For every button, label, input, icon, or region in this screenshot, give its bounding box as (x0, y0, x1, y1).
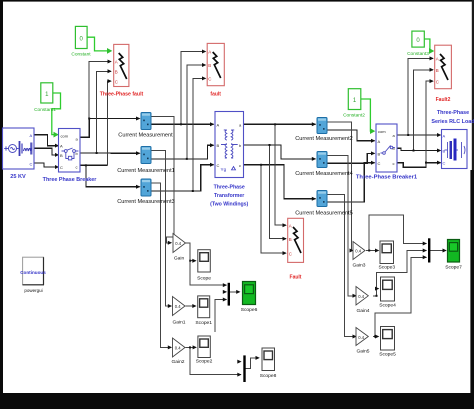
svg-text:Scope4: Scope4 (379, 303, 396, 309)
gain Gain3 (353, 242, 365, 260)
current measurement Current Measurement4 (317, 152, 327, 168)
svg-text:0.4: 0.4 (358, 294, 364, 299)
frame bottom border (0, 393, 474, 409)
wire Current Measurement4 out to Three-Phase Breaker1 B (327, 153, 375, 163)
scope Scope1 (198, 296, 210, 318)
wire mux Scope7 output to Scope7 (430, 250, 446, 252)
svg-text:Current Measurement1: Current Measurement1 (117, 168, 175, 174)
svg-text:C: C (208, 77, 211, 82)
svg-text:C: C (289, 251, 292, 256)
wire tap down to Fault B (270, 145, 287, 239)
wire source B to breaker B (34, 148, 59, 155)
current measurement Current Measurement5 (317, 191, 327, 207)
wire transformer b to Current Measurement4 (244, 145, 316, 159)
wire tap up to fault A (181, 52, 206, 125)
svg-text:Transformer: Transformer (214, 193, 244, 199)
current measurement Current Measurement1 (141, 147, 151, 164)
svg-text:0.4: 0.4 (355, 249, 361, 254)
gain Gain5 (356, 328, 368, 346)
constant Constant2 (348, 89, 361, 110)
wire Constant1 to breaker com (52, 93, 61, 135)
wire node tap to Three-Phase Fault A (89, 62, 111, 119)
svg-text:Three Phase Breaker: Three Phase Breaker (43, 177, 98, 183)
wire tap up to Fault2 A (408, 58, 433, 135)
svg-text:Constant: Constant (71, 52, 91, 58)
svg-text:A: A (60, 144, 63, 149)
svg-text:Yg: Yg (221, 167, 227, 172)
mux for Scope7 (428, 238, 430, 262)
svg-text:Current Measurement4: Current Measurement4 (295, 171, 353, 177)
svg-text:A: A (217, 122, 220, 127)
svg-text:Scope: Scope (197, 276, 211, 282)
frame left border (0, 0, 3, 409)
svg-text:com: com (378, 129, 386, 134)
wire tap up to Fault2 B (414, 70, 434, 151)
wire tap up to Three-Phase Fault C (107, 81, 111, 165)
svg-text:Constant1: Constant1 (34, 107, 56, 113)
wire source C to breaker C (34, 163, 59, 167)
wire tap down to Current Measurement3 input (86, 165, 140, 186)
svg-text:B: B (436, 68, 439, 73)
scope Scope4 (381, 277, 395, 301)
svg-text:Fault: Fault (290, 275, 302, 281)
wire Current Measurement1 i output down to Gain1 (151, 150, 171, 306)
svg-text:Scope2: Scope2 (196, 359, 213, 365)
svg-text:Current Measurement5: Current Measurement5 (295, 210, 353, 216)
breaker Three-Phase Breaker1 (376, 124, 397, 172)
svg-text:Constant3: Constant3 (407, 51, 429, 57)
wire mux Scope8 output to Scope8 (246, 358, 259, 369)
constant Constant3 (412, 31, 424, 47)
fault fault (top middle) (207, 43, 224, 85)
wire Gain branch down to mux Scope6 input1 (190, 261, 226, 285)
svg-text:Scope8: Scope8 (260, 373, 277, 379)
wire Gain4 branch to mux Scope7 input2 (377, 251, 427, 289)
transformer Three-Phase Transformer (215, 112, 244, 178)
scope Scope6 (green) (243, 282, 256, 305)
scope Scope5 (381, 327, 395, 351)
black arrowheads (55, 50, 447, 377)
breaker Three Phase Breaker (59, 129, 81, 173)
wire Current Measurement5 out to Three-Phase Breaker1 C (327, 163, 375, 202)
svg-text:Gain3: Gain3 (352, 263, 365, 269)
wire node tap to Three-Phase Fault B (97, 71, 111, 153)
wire breaker b to Current Measurement1 input (80, 152, 140, 154)
svg-text:C: C (217, 163, 220, 168)
wire tap up to fault C (193, 78, 206, 191)
svg-text:Gain1: Gain1 (172, 320, 185, 326)
powergui Continuous block (20, 257, 46, 285)
svg-text:(Two Windings): (Two Windings) (210, 202, 248, 208)
wire Gain2 output to Scope2 (186, 346, 196, 348)
svg-text:Three-Phase: Three-Phase (214, 185, 245, 191)
svg-text:Gain5: Gain5 (356, 349, 369, 355)
load Three-Phase Series RLC Load block (442, 130, 468, 169)
frame right border upper (472, 0, 474, 170)
wire breaker a to Current Measurement input (80, 119, 140, 138)
svg-text:C: C (443, 161, 446, 166)
wire transformer a to Current Measurement2 (244, 123, 316, 125)
wire bus B Current Measurement1 to Transformer B (151, 145, 214, 159)
svg-text:Continuous: Continuous (20, 270, 46, 275)
constant Constant1 (41, 83, 53, 103)
svg-text:25 KV: 25 KV (10, 174, 26, 180)
wire breaker1 c to RLC load C (397, 163, 441, 168)
wire breaker c horizontal (80, 164, 107, 166)
wire tap down to Fault A (275, 124, 286, 225)
svg-text:Three-Phase Breaker1: Three-Phase Breaker1 (356, 175, 418, 181)
svg-text:C: C (436, 79, 439, 84)
svg-text:B: B (30, 147, 33, 152)
svg-text:Scope6: Scope6 (241, 307, 258, 313)
gain Gain4 (356, 287, 368, 306)
svg-text:Current Measurement2: Current Measurement2 (295, 136, 353, 142)
fault Fault (bottom) (288, 218, 304, 262)
wire Gain3 output to Scope3 (366, 250, 379, 252)
wire Gain4 output jog to Scope4 (373, 289, 379, 296)
svg-text:c: c (76, 164, 78, 169)
wire breaker1 a to RLC load A (397, 134, 441, 136)
svg-text:Fault2: Fault2 (436, 97, 451, 103)
svg-text:Three-Phase fault: Three-Phase fault (100, 92, 144, 98)
source block 25 KV (3, 128, 35, 169)
constant wires (green) (52, 37, 432, 134)
svg-text:B: B (60, 153, 63, 158)
svg-text:0.4: 0.4 (358, 335, 364, 340)
wire mux Scope6 output to Scope6 (230, 291, 239, 293)
frame right border lower (470, 170, 474, 409)
frame top border (0, 0, 474, 2)
junction node dots (85, 118, 427, 349)
svg-text:B: B (443, 149, 446, 154)
svg-text:0.4: 0.4 (175, 304, 181, 309)
wire transformer c to Current Measurement5 (244, 165, 316, 199)
svg-text:Current Measurement3: Current Measurement3 (117, 199, 175, 205)
svg-text:A: A (436, 57, 439, 62)
wire tap down to Fault C (261, 165, 286, 253)
svg-text:Scope7: Scope7 (445, 264, 462, 270)
scope Scope2 (198, 336, 210, 358)
svg-text:A: A (115, 60, 118, 65)
green arrowheads (54, 48, 435, 138)
wire Current Measurement5 i output down to Gain5 (327, 195, 356, 337)
svg-text:C: C (378, 161, 381, 166)
svg-text:A: A (378, 139, 381, 144)
wire bus A Current Measurement to Transformer A (151, 123, 214, 125)
svg-text:0.4: 0.4 (175, 241, 181, 246)
svg-text:Current Measurement: Current Measurement (118, 133, 173, 139)
wire vertical feed mux Scope6 input3 (215, 300, 226, 333)
svg-text:B: B (378, 151, 381, 156)
svg-text:A: A (443, 133, 446, 138)
svg-text:Constant2: Constant2 (343, 113, 365, 119)
wire tap up to fault B (187, 65, 206, 159)
scope Scope3 (380, 241, 394, 264)
wire Gain2 branch down to mux Scope8 input2 (190, 347, 241, 374)
svg-text:Scope5: Scope5 (379, 352, 396, 358)
mux for Scope8 (243, 355, 245, 382)
svg-text:Gain: Gain (174, 256, 185, 262)
gain Gain2 (173, 338, 186, 357)
svg-text:A: A (289, 223, 292, 228)
wire bus C Current Measurement3 to Transformer C (151, 165, 214, 191)
wire Constant3 to Fault2 control (424, 39, 431, 51)
svg-text:Gain2: Gain2 (171, 359, 184, 365)
svg-text:Gain4: Gain4 (356, 308, 369, 314)
wire breaker1 b to RLC load B (397, 148, 441, 150)
wire Gain output to Scope (186, 243, 196, 261)
mux for Scope6 (228, 283, 230, 306)
wire Gain1 output to Scope1 (186, 305, 196, 307)
wire Gain5 output to Scope5 (373, 336, 379, 338)
scope Scope7 (green) (448, 240, 460, 263)
svg-text:fault: fault (210, 92, 221, 98)
current measurement Current Measurement3 (141, 179, 151, 196)
svg-text:com: com (61, 134, 69, 139)
svg-text:B: B (115, 70, 118, 75)
scope Scope8 (262, 348, 275, 371)
svg-text:Scope3: Scope3 (379, 264, 396, 270)
wire Current Measurement2 i output down to Gain3 (327, 122, 353, 251)
wire tap up to Fault2 C (426, 81, 433, 163)
svg-text:Three-Phase: Three-Phase (437, 110, 469, 116)
constant Constant (75, 26, 87, 48)
current measurement Current Measurement2 (317, 118, 327, 134)
svg-text:powergui: powergui (24, 288, 42, 293)
wire Current Measurement4 i output down to Gain4 (327, 156, 356, 296)
svg-text:0.4: 0.4 (175, 346, 181, 351)
svg-text:c: c (393, 161, 395, 166)
svg-text:Scope1: Scope1 (195, 320, 212, 326)
gain Gain1 (173, 297, 186, 316)
svg-text:Series RLC Load: Series RLC Load (431, 119, 474, 125)
svg-text:C: C (60, 165, 63, 170)
svg-text:A: A (208, 50, 211, 55)
svg-text:A: A (30, 133, 33, 138)
svg-text:B: B (208, 63, 211, 68)
svg-text:C: C (115, 79, 118, 84)
fault Three-Phase Fault (114, 44, 129, 86)
svg-text:B: B (217, 143, 220, 148)
svg-text:B: B (289, 237, 292, 242)
svg-text:C: C (30, 161, 33, 166)
wire Current Measurement2 out to Three-Phase Breaker1 A (327, 130, 375, 141)
wire Current Measurement i output down to Gain (151, 117, 174, 243)
wire Gain3 branch top route to mux Scope7 input1 (369, 215, 426, 251)
wire Current Measurement3 i output down to Gain2 (151, 183, 171, 347)
fault Fault2 (435, 45, 452, 88)
wire source A to breaker A (34, 135, 59, 146)
wire Gain5 branch to mux Scope7 input3 (375, 257, 427, 336)
svg-text:c: c (239, 163, 241, 168)
gain Gain (173, 234, 186, 253)
scope Scope (198, 250, 211, 272)
current measurement Current Measurement (141, 113, 151, 130)
wire Constant2 to breaker1 com (361, 99, 373, 131)
wire Constant to Three-Phase Fault control (87, 37, 109, 51)
